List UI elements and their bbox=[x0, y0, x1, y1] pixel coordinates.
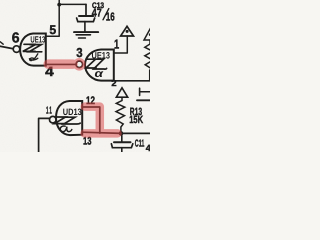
svg-text:UE13: UE13 bbox=[30, 34, 45, 44]
svg-text:C11: C11 bbox=[135, 138, 145, 149]
svg-text:2: 2 bbox=[111, 78, 116, 88]
svg-text:UE13: UE13 bbox=[92, 50, 111, 60]
svg-text:1: 1 bbox=[114, 36, 119, 51]
svg-text:6: 6 bbox=[12, 31, 20, 47]
svg-text:16: 16 bbox=[106, 11, 115, 23]
svg-text:3: 3 bbox=[76, 45, 82, 60]
svg-text:15K: 15K bbox=[129, 114, 143, 126]
svg-text:5: 5 bbox=[49, 23, 56, 37]
svg-text:UD13: UD13 bbox=[63, 107, 82, 117]
svg-text:47: 47 bbox=[92, 8, 102, 20]
svg-text:α: α bbox=[95, 68, 105, 80]
svg-text:1: 1 bbox=[49, 105, 52, 116]
svg-text:4: 4 bbox=[146, 143, 150, 152]
